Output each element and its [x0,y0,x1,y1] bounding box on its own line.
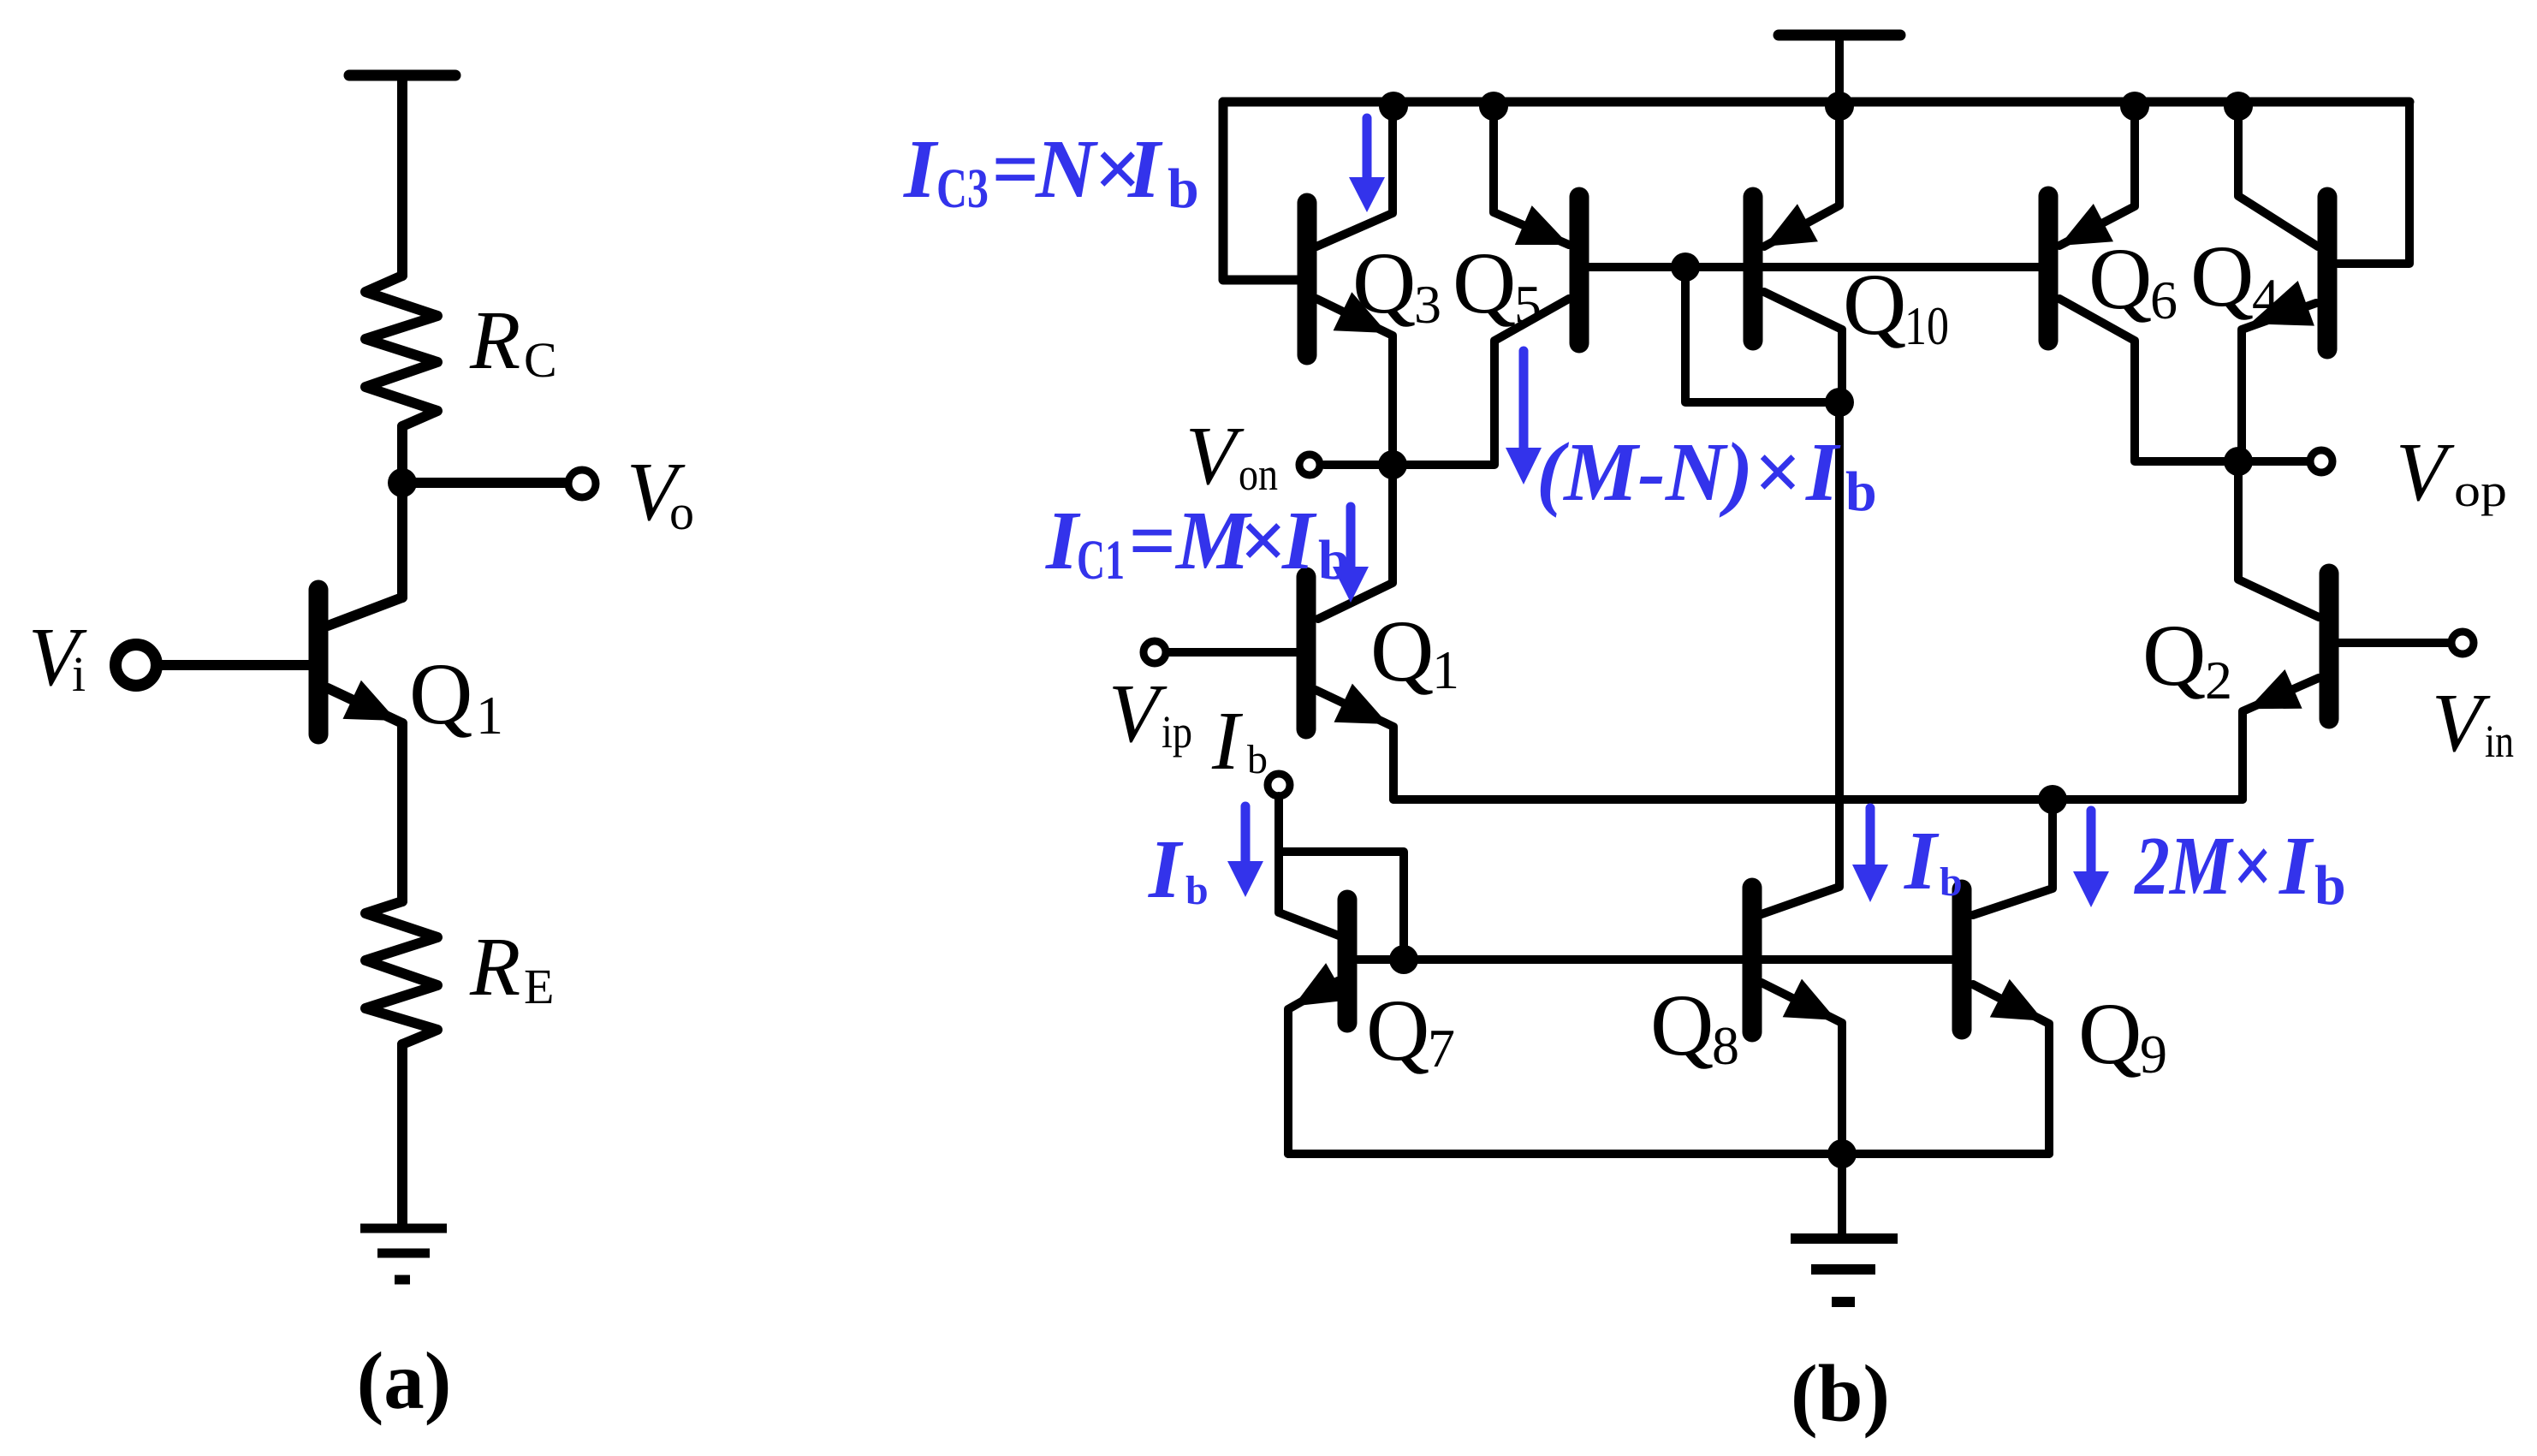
power supply rail (a) [349,70,455,81]
svg-text:4: 4 [2252,267,2279,328]
current arrow Ib left [1241,806,1251,861]
svg-text:b: b [1247,737,1268,782]
svg-text:V: V [1108,668,1167,759]
svg-text:=: = [991,123,1038,215]
svg-text:C3: C3 [936,157,989,220]
Q7 emitter lead [1288,981,1338,1154]
svg-text:(a): (a) [357,1335,452,1426]
svg-text:E: E [524,959,554,1014]
svg-text:b: b [1845,461,1877,523]
svg-text:Q: Q [1370,603,1434,700]
transistor Q4 base bar [2318,197,2338,349]
svg-text:in: in [2485,716,2514,767]
Q1a emitter arrow [343,680,397,721]
Q1 emitter lead [1316,690,1393,799]
svg-text:8: 8 [1712,1015,1739,1076]
wire RC to collector node [397,426,407,597]
Q6 emitter arrow [2059,204,2113,246]
svg-text:I: I [2279,820,2314,912]
junction dot Q7 base [1389,945,1418,974]
current arrow Ib middle [1866,808,1875,865]
transistor Q3 base bar [1298,203,1317,355]
svg-text:V: V [2432,677,2491,769]
svg-text:V: V [2396,426,2455,518]
Q1 emitter arrow [1334,684,1388,724]
Q3 emitter arrow [1334,292,1387,333]
svg-text:I: I [1281,495,1317,586]
Q4 collector lead [2238,102,2318,247]
Q2 base wire [2338,639,2451,647]
terminal Vop [2310,450,2332,472]
svg-text:R: R [469,921,520,1013]
node Vop junction [2224,447,2253,476]
Q2 collector lead [2238,461,2319,617]
Q4 base loop to rail [2338,102,2409,264]
transistor Q2 base bar [2320,573,2339,719]
svg-text:R: R [469,294,520,386]
node Vo junction [388,468,417,497]
junction dot mirror link [1671,253,1700,282]
svg-text:I: I [1127,123,1163,215]
Q1a emitter lead [328,688,402,723]
svg-text:(M-N)×: (M-N)× [1536,426,1800,518]
svg-text:op: op [2454,465,2507,516]
svg-text:b: b [1185,868,1209,913]
Q6 emitter lead [2059,102,2135,246]
wire ground stub (b) [1838,1154,1846,1233]
svg-text:V: V [1185,410,1245,502]
svg-text:N: N [1035,123,1098,215]
terminal Vi [116,645,157,686]
svg-text:I: I [1045,495,1081,586]
Q10 emitter arrow [1764,204,1818,247]
junction dot supply at rail [1825,92,1854,121]
svg-text:Q: Q [1843,256,1906,354]
svg-text:2: 2 [2205,650,2232,710]
Q9 emitter lead [1973,984,2049,1154]
Q4 emitter lead to Vop [2242,303,2316,461]
Q6 collector lead to Vop [2059,299,2238,461]
Q8 emitter lead [1762,983,1842,1154]
transistor Q6 base bar [2039,196,2059,341]
current arrow IC1 [1346,507,1356,567]
current arrow 2MIb [2087,811,2096,871]
node Von junction [1378,450,1407,479]
svg-text:b: b [1940,859,1963,905]
Q2 emitter lead [2243,678,2319,799]
terminal Vip [1144,641,1166,663]
svg-text:Q: Q [1352,235,1416,332]
svg-text:Q: Q [1453,235,1516,332]
transistor Q8 base bar [1743,888,1762,1032]
base bus Q7-Q8-Q9 [1358,955,1952,964]
svg-text:7: 7 [1428,1018,1455,1079]
wire mirror link / Q10 collector node / mid vertical [1685,267,1839,914]
bottom rail [1288,1150,2049,1158]
transistor Q1 base bar [1297,577,1316,729]
svg-text:(b): (b) [1791,1348,1890,1439]
wire supply to RC [397,75,407,276]
wire emitter to RE [397,723,407,901]
Q5 collector / Von wire [1324,299,1569,465]
resistor RC [365,276,437,426]
svg-text:o: o [669,484,694,540]
Q8 emitter arrow [1783,979,1837,1020]
svg-text:on: on [1239,449,1278,500]
svg-text:1: 1 [1432,639,1459,700]
transistor Q7 base bar [1338,900,1358,1023]
junction dot Q3 collector at rail [1379,92,1408,121]
current arrow (M-N)Ib [1519,351,1529,448]
svg-text:b: b [1167,157,1199,220]
Q3 emitter / Von / Q1 collector wire [1316,299,1393,619]
ground symbol (b) [1791,1233,1898,1244]
Q9 emitter arrow [1990,979,2044,1021]
svg-text:C1: C1 [1077,529,1125,591]
svg-text:10: 10 [1904,295,1949,356]
base bus Q5-Q10-Q6 [1589,263,2039,271]
Q3 collector lead [1316,102,1393,247]
svg-text:C: C [524,332,557,388]
top supply rail [1223,98,2409,107]
svg-text:Q: Q [1366,982,1429,1079]
Q10 emitter lead [1764,102,1839,247]
svg-text:I: I [903,123,939,215]
Q1 base wire [1166,648,1297,657]
junction dot Q4 emitter at rail [2224,92,2253,121]
svg-text:2M×: 2M× [2133,820,2272,912]
Q7 emitter arrow [1293,963,1347,1006]
svg-text:1: 1 [476,685,503,746]
svg-text:b: b [2314,854,2346,917]
wire Ib to Q7 collector [1279,852,1339,936]
Q5 emitter arrow [1515,205,1569,245]
svg-text:Q: Q [2088,230,2152,328]
svg-text:Q: Q [409,645,472,743]
wire RE to ground [397,1044,407,1225]
svg-text:Q: Q [2142,607,2206,704]
transistor Q5 base bar [1570,197,1589,343]
svg-text:I: I [1904,815,1940,906]
wire Ib to Q7 base [1279,796,1404,960]
svg-text:ip: ip [1162,706,1192,758]
svg-text:9: 9 [2140,1024,2167,1085]
Q2 emitter arrow [2248,669,2302,709]
current arrow IC3 [1363,118,1372,177]
Q1a collector lead [328,597,402,626]
svg-text:5: 5 [1514,274,1542,335]
svg-text:=: = [1128,495,1175,586]
terminal Vin [2451,632,2474,654]
wire rail to Q3 base loop [1223,102,1298,280]
transistor Q1a base bar [309,590,329,734]
junction dot tail to Q9 [2038,785,2067,814]
resistor RE [365,901,437,1044]
junction dot Q5 emitter at rail [1479,92,1508,121]
junction dot Q6 emitter at rail [2120,92,2149,121]
wire Vop node to terminal [2238,457,2310,466]
transistor Q9 base bar [1952,889,1972,1030]
power supply symbol (b) [1779,30,1900,41]
Q9 collector lead [1973,799,2053,915]
svg-text:i: i [72,646,86,702]
terminal Von [1299,455,1320,475]
junction dot ground node [1827,1139,1857,1168]
svg-text:Q: Q [2078,985,2142,1083]
Q5 emitter lead [1494,102,1569,245]
terminal Ib [1268,774,1290,796]
tail wire Q1-Q2 emitters [1393,795,2243,804]
svg-text:Q: Q [1650,977,1714,1074]
Q4 emitter arrow [2250,281,2314,326]
ground symbol (a) [360,1224,447,1233]
transistor Q10 base bar [1744,197,1763,341]
Q10 collector lead [1764,292,1842,402]
wire Vi to base [159,660,309,670]
svg-text:3: 3 [1414,274,1441,335]
svg-text:6: 6 [2150,270,2178,330]
svg-text:I: I [1805,426,1841,518]
svg-text:I: I [1148,823,1184,915]
junction dot Q10 collector node [1825,388,1854,417]
svg-text:I: I [1211,695,1244,787]
svg-text:×: × [1239,495,1286,586]
svg-text:Q: Q [2190,228,2254,325]
terminal Vo [568,470,596,497]
wire node to Vo terminal [402,478,568,488]
